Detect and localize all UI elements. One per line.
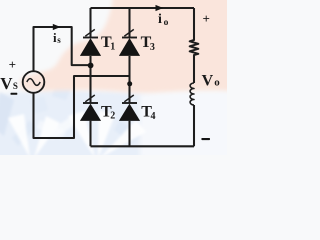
svg-text:1: 1 bbox=[110, 41, 115, 52]
svg-text:V: V bbox=[202, 72, 214, 89]
svg-text:i: i bbox=[158, 12, 162, 27]
svg-text:o: o bbox=[164, 18, 169, 28]
svg-text:S: S bbox=[13, 81, 18, 91]
svg-text:s: s bbox=[57, 35, 61, 45]
svg-text:3: 3 bbox=[150, 42, 155, 53]
svg-text:+: + bbox=[9, 57, 16, 72]
svg-text:2: 2 bbox=[110, 110, 115, 121]
svg-text:4: 4 bbox=[151, 111, 156, 122]
svg-text:o: o bbox=[214, 77, 220, 89]
svg-text:+: + bbox=[203, 11, 210, 26]
svg-text:V: V bbox=[0, 74, 13, 93]
